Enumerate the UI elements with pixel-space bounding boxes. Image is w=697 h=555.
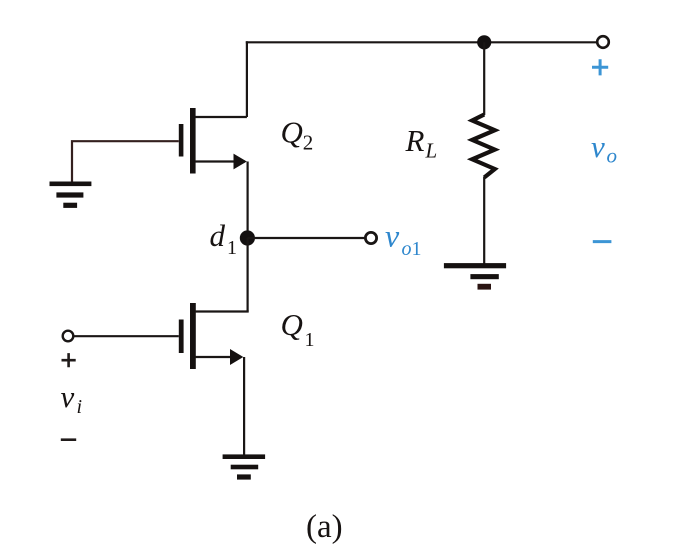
terminal vo output	[597, 36, 609, 48]
ground G1 (Q2 gate)	[50, 182, 92, 208]
label RL	[405, 123, 438, 163]
label minus (input)	[61, 438, 76, 441]
svg-text:2: 2	[303, 131, 314, 155]
svg-text:Q: Q	[281, 115, 303, 150]
svg-text:1: 1	[412, 238, 422, 260]
junction dot: top rail / RL	[477, 35, 491, 49]
wire: top rail down to resistor RL	[483, 42, 485, 115]
wire: Q1 source down to ground	[243, 357, 245, 455]
wire: top rail	[246, 41, 603, 43]
wire: node d1 down to Q1 drain	[247, 238, 249, 312]
transistor Q1	[179, 303, 249, 369]
transistor Q2	[179, 108, 247, 174]
wire: Q2 gate to ground	[72, 141, 179, 181]
svg-text:R: R	[405, 123, 425, 158]
ground G2 (RL)	[444, 263, 506, 289]
svg-text:Q: Q	[281, 307, 303, 342]
ground G3 (Q1 source)	[223, 454, 266, 479]
label d1	[210, 218, 238, 259]
label vi	[61, 379, 83, 418]
svg-text:v: v	[591, 129, 605, 164]
wire: input vi to Q1 gate	[74, 335, 179, 337]
svg-text:i: i	[77, 396, 83, 418]
terminal vi input	[63, 331, 74, 342]
svg-text:o: o	[607, 144, 618, 168]
svg-text:v: v	[61, 379, 75, 414]
label Q1	[281, 307, 315, 351]
label + (input)	[62, 353, 76, 367]
svg-text:v: v	[385, 218, 400, 254]
terminal vo1	[365, 232, 376, 243]
svg-text:1: 1	[305, 329, 315, 351]
node d1 junction dot	[240, 230, 255, 245]
label + (output, blue)	[592, 59, 608, 75]
resistor RL	[472, 115, 495, 178]
svg-text:1: 1	[227, 237, 237, 259]
label vo (blue)	[591, 129, 617, 168]
svg-text:o: o	[402, 238, 412, 260]
label vo1	[385, 218, 422, 261]
label Q2	[281, 115, 314, 155]
wire: node d1 to terminal vo1	[247, 237, 364, 239]
wire: Q2 drain up to top rail	[246, 41, 248, 117]
svg-text:(a): (a)	[306, 509, 343, 545]
label minus (output, blue)	[593, 240, 612, 243]
wire: resistor RL down to ground	[483, 177, 485, 264]
svg-text:d: d	[210, 218, 226, 253]
svg-text:L: L	[425, 139, 438, 163]
wire: Q2 source down to node d1	[247, 162, 249, 239]
